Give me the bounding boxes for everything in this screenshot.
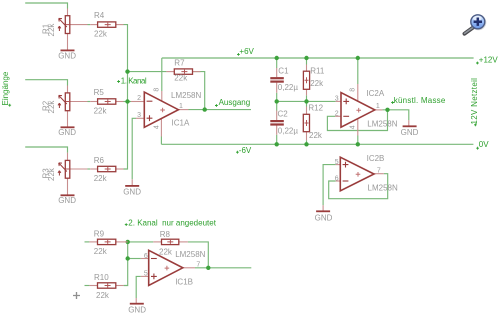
svg-text:3: 3 <box>335 96 339 103</box>
svg-text:7: 7 <box>196 262 200 269</box>
svg-text:-6V: -6V <box>239 146 252 155</box>
svg-text:LM258N: LM258N <box>367 119 397 128</box>
svg-text:1. Kanal: 1. Kanal <box>121 76 147 85</box>
svg-text:2: 2 <box>335 111 339 118</box>
svg-text:2. Kanal nur angedeutet: 2. Kanal nur angedeutet <box>128 218 216 227</box>
svg-text:C2: C2 <box>278 110 289 119</box>
svg-text:LM258N: LM258N <box>175 250 205 259</box>
svg-text:8: 8 <box>350 88 357 92</box>
svg-text:22k: 22k <box>159 248 173 257</box>
svg-text:3: 3 <box>137 112 141 119</box>
svg-text:0V: 0V <box>479 140 489 149</box>
svg-text:GND: GND <box>58 128 76 137</box>
svg-text:Ausgang: Ausgang <box>219 98 251 107</box>
svg-text:R6: R6 <box>94 156 105 165</box>
svg-text:Eingänge: Eingänge <box>1 71 10 105</box>
svg-text:LM258N: LM258N <box>368 183 398 192</box>
svg-text:+12V: +12V <box>479 55 499 64</box>
svg-text:22k: 22k <box>47 23 56 37</box>
svg-text:0,22µ: 0,22µ <box>278 126 299 135</box>
svg-text:R11: R11 <box>310 67 325 76</box>
svg-text:künstl. Masse: künstl. Masse <box>394 96 446 105</box>
svg-text:22k: 22k <box>96 291 110 300</box>
svg-text:R12: R12 <box>308 103 323 112</box>
svg-text:GND: GND <box>401 128 419 137</box>
svg-text:R9: R9 <box>94 230 105 239</box>
svg-text:22k: 22k <box>310 79 324 88</box>
svg-text:IC2B: IC2B <box>367 154 385 163</box>
svg-text:6: 6 <box>144 253 148 260</box>
svg-text:8: 8 <box>153 88 160 92</box>
svg-text:LM258N: LM258N <box>171 91 201 100</box>
svg-text:22k: 22k <box>94 247 108 256</box>
svg-text:GND: GND <box>58 51 76 60</box>
svg-text:6: 6 <box>335 175 339 182</box>
svg-text:4: 4 <box>153 125 160 129</box>
svg-text:0,22µ: 0,22µ <box>278 83 299 92</box>
svg-text:GND: GND <box>315 214 333 223</box>
svg-text:GND: GND <box>58 196 76 205</box>
svg-text:5: 5 <box>335 159 339 166</box>
svg-text:IC1A: IC1A <box>172 118 190 127</box>
svg-text:R4: R4 <box>94 11 105 20</box>
svg-text:2: 2 <box>137 95 141 102</box>
svg-text:12V Netzteil: 12V Netzteil <box>470 78 479 125</box>
svg-text:+6V: +6V <box>239 47 254 56</box>
svg-text:22k: 22k <box>47 167 56 181</box>
svg-text:22k: 22k <box>94 174 108 183</box>
svg-text:22k: 22k <box>174 74 188 83</box>
svg-text:R5: R5 <box>94 88 105 97</box>
svg-text:1: 1 <box>179 103 183 110</box>
svg-text:GND: GND <box>128 306 146 315</box>
svg-text:22k: 22k <box>47 100 56 114</box>
svg-text:1: 1 <box>376 103 380 110</box>
svg-text:C1: C1 <box>278 67 289 76</box>
svg-text:R7: R7 <box>174 59 185 68</box>
svg-text:IC2A: IC2A <box>366 89 384 98</box>
svg-text:4: 4 <box>350 125 357 129</box>
svg-text:GND: GND <box>123 187 141 196</box>
svg-text:22k: 22k <box>94 29 108 38</box>
svg-text:7: 7 <box>377 167 381 174</box>
svg-text:5: 5 <box>144 271 148 278</box>
svg-text:22k: 22k <box>94 107 108 116</box>
svg-text:IC1B: IC1B <box>175 278 193 287</box>
svg-text:22k: 22k <box>309 131 323 140</box>
svg-text:R10: R10 <box>94 273 109 282</box>
svg-text:R8: R8 <box>160 230 171 239</box>
